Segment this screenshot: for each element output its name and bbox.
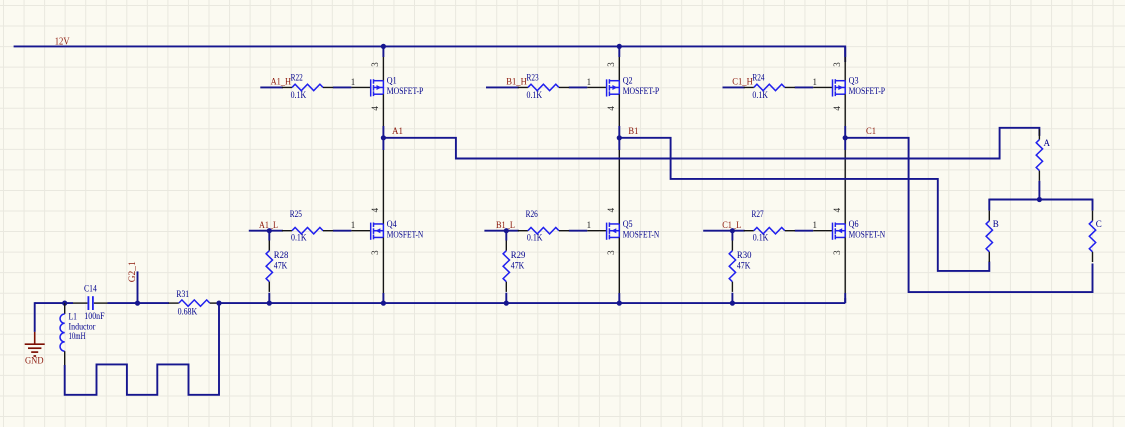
value 100nF of C14	[84, 311, 104, 321]
label B (load)	[993, 219, 999, 229]
junction node B1	[617, 135, 622, 140]
svg-text:4: 4	[832, 207, 842, 212]
wire gate to R28	[268, 231, 270, 303]
svg-text:R25: R25	[290, 209, 303, 219]
svg-text:0.1K: 0.1K	[752, 90, 768, 100]
transistor Q3 MOSFET-P	[833, 79, 846, 96]
svg-text:0.68K: 0.68K	[178, 307, 198, 317]
net label A1_H	[271, 77, 292, 87]
wire net G2_1 stub	[137, 271, 139, 303]
wire square-wave generator	[65, 303, 219, 395]
junction star point	[1037, 197, 1042, 202]
svg-text:10mH: 10mH	[69, 331, 86, 341]
svg-text:R31: R31	[176, 289, 189, 299]
svg-text:A1: A1	[392, 126, 403, 136]
junction bus at Q4	[381, 301, 386, 306]
wire net C1_H to Q3 gate	[723, 86, 814, 88]
value 0.1K of R27	[753, 233, 769, 243]
svg-text:0.1K: 0.1K	[753, 233, 769, 243]
Q6 pin 3 (source to bus)	[832, 237, 845, 303]
transistor Q5 MOSFET-N	[607, 222, 620, 239]
svg-text:47K: 47K	[274, 260, 288, 270]
resistor R22	[282, 84, 333, 90]
svg-text:3: 3	[606, 62, 616, 67]
value 47K of R29	[511, 260, 525, 270]
svg-text:Q2: Q2	[623, 76, 633, 86]
svg-text:1: 1	[351, 77, 356, 87]
wire load A to star point	[1038, 181, 1040, 200]
svg-text:Q3: Q3	[849, 76, 859, 86]
Q1 pin 3 (drain to 12V rail)	[370, 46, 383, 80]
svg-text:R29: R29	[511, 250, 526, 260]
svg-text:R27: R27	[752, 209, 765, 219]
label R26	[526, 209, 539, 219]
resistor R23	[518, 84, 569, 90]
Q6 pin 4 (drain to node)	[832, 138, 845, 224]
Q3 pin 4 (source to node C1)	[832, 94, 845, 138]
Q4 pin 3 (source to bus)	[370, 237, 383, 303]
label R27	[752, 209, 765, 219]
label Q6	[849, 219, 859, 229]
svg-text:Inductor: Inductor	[69, 321, 96, 331]
label R25	[290, 209, 303, 219]
svg-text:4: 4	[370, 106, 380, 111]
wire GND corner to C14	[35, 302, 73, 332]
wire gate to R29	[505, 231, 507, 303]
wire net A1_L to Q4 gate	[249, 230, 352, 232]
transistor Q6 MOSFET-N	[833, 222, 846, 239]
label Q4	[387, 219, 397, 229]
wire node C1 to load C	[845, 138, 1092, 292]
wire net C1_L to Q6 gate	[703, 230, 813, 232]
svg-text:100nF: 100nF	[84, 311, 104, 321]
label Q1	[387, 76, 397, 86]
net label B1_L	[496, 220, 515, 230]
junction C1_L gate / R30	[730, 228, 735, 233]
svg-text:C14: C14	[84, 283, 97, 293]
value 0.68K of R31	[178, 307, 198, 317]
label R28	[274, 250, 289, 260]
svg-text:1: 1	[587, 220, 592, 230]
resistor R25	[282, 228, 333, 234]
svg-text:R26: R26	[526, 209, 539, 219]
resistor load B	[986, 211, 992, 262]
label MOSFET-N of Q5	[623, 229, 660, 239]
svg-text:MOSFET-P: MOSFET-P	[849, 86, 886, 96]
wire net A1_H to Q1 gate	[260, 86, 351, 88]
value 47K of R28	[274, 260, 288, 270]
net label A1	[392, 126, 403, 136]
svg-text:1: 1	[587, 77, 592, 87]
svg-text:MOSFET-P: MOSFET-P	[623, 86, 660, 96]
label R31	[176, 289, 189, 299]
svg-text:Q1: Q1	[387, 76, 397, 86]
label A (load)	[1044, 138, 1051, 148]
value 0.1K of R22	[291, 90, 307, 100]
svg-text:Q6: Q6	[849, 219, 859, 229]
label MOSFET-P of Q1	[387, 86, 424, 96]
svg-text:R28: R28	[274, 250, 289, 260]
label Q5	[623, 219, 633, 229]
svg-text:L1: L1	[69, 312, 78, 322]
junction R31 / generator return	[216, 301, 221, 306]
transistor Q1 MOSFET-P	[371, 79, 384, 96]
resistor load C	[1089, 211, 1095, 262]
value 0.1K of R23	[527, 90, 543, 100]
svg-text:C: C	[1096, 219, 1102, 229]
label R24	[752, 73, 765, 83]
svg-text:47K: 47K	[511, 260, 525, 270]
Q5 pin 4 (drain to node)	[606, 138, 619, 224]
svg-text:Q4: Q4	[387, 219, 397, 229]
transistor Q4 MOSFET-N	[371, 222, 384, 239]
svg-text:R30: R30	[737, 250, 752, 260]
junction node C1	[843, 135, 848, 140]
wire star point B to C	[989, 199, 1092, 211]
junction A1_L gate / R28	[267, 228, 272, 233]
svg-text:R24: R24	[752, 73, 765, 83]
svg-text:B1_H: B1_H	[506, 77, 527, 87]
Q1 pin 1 (gate)	[351, 77, 371, 88]
label R30	[737, 250, 752, 260]
wire gate to R30	[731, 231, 733, 303]
resistor R27	[744, 228, 795, 234]
resistor R28 47K	[266, 241, 272, 292]
svg-text:C1: C1	[866, 126, 876, 136]
Q2 pin 3 (drain to 12V rail)	[606, 46, 619, 80]
svg-text:G2_1: G2_1	[127, 261, 137, 282]
net label C1_L	[722, 220, 741, 230]
net label C1	[866, 126, 876, 136]
label MOSFET-N of Q6	[849, 229, 886, 239]
junction on rail at Q1	[381, 44, 386, 49]
label L1	[69, 312, 78, 322]
resistor load A	[1036, 129, 1042, 180]
label GND	[25, 356, 44, 366]
svg-text:Q5: Q5	[623, 219, 633, 229]
junction node A1	[381, 135, 386, 140]
label MOSFET-P of Q3	[849, 86, 886, 96]
svg-text:0.1K: 0.1K	[291, 90, 307, 100]
label C (load)	[1096, 219, 1102, 229]
svg-text:R22: R22	[291, 73, 303, 83]
svg-text:3: 3	[370, 250, 380, 255]
resistor R26	[518, 228, 569, 234]
wire C14 to R31	[108, 302, 170, 304]
wire net B1_L to Q5 gate	[484, 230, 587, 232]
svg-text:A: A	[1044, 138, 1051, 148]
svg-text:MOSFET-N: MOSFET-N	[387, 229, 424, 239]
junction net G2_1	[135, 301, 140, 306]
svg-text:4: 4	[606, 207, 616, 212]
junction on rail at Q2	[617, 44, 622, 49]
label C14	[84, 283, 97, 293]
label Q2	[623, 76, 633, 86]
svg-text:0.1K: 0.1K	[527, 90, 543, 100]
svg-text:3: 3	[606, 250, 616, 255]
value 0.1K of R25	[291, 233, 307, 243]
junction R30 to source bus	[730, 301, 735, 306]
label MOSFET-P of Q2	[623, 86, 660, 96]
junction L1 tap	[62, 301, 67, 306]
wire node A1 to load A	[383, 128, 1039, 159]
svg-text:3: 3	[832, 62, 842, 67]
svg-text:3: 3	[832, 250, 842, 255]
wire source bus	[219, 298, 845, 303]
wire node B1 to load B	[619, 138, 989, 271]
svg-text:47K: 47K	[737, 260, 751, 270]
svg-text:C1_H: C1_H	[732, 77, 753, 87]
junction B1_L gate / R29	[504, 228, 509, 233]
svg-text:1: 1	[813, 220, 818, 230]
svg-text:12V: 12V	[55, 36, 71, 47]
Q2 pin 4 (source to node B1)	[606, 94, 619, 138]
resistor R31	[169, 300, 220, 306]
svg-text:B1: B1	[628, 126, 638, 136]
net label B1_H	[506, 77, 527, 87]
svg-text:B: B	[993, 219, 999, 229]
transistor Q2 MOSFET-P	[607, 79, 620, 96]
Q3 pin 3 (drain to 12V rail)	[832, 46, 845, 80]
ground symbol GND	[25, 332, 45, 356]
value 47K of R30	[737, 260, 751, 270]
svg-text:1: 1	[813, 77, 818, 87]
resistor R24	[744, 84, 795, 90]
Q5 pin 1 (gate)	[587, 220, 607, 231]
svg-text:GND: GND	[25, 356, 44, 366]
svg-text:3: 3	[370, 62, 380, 67]
Q3 pin 1 (gate)	[813, 77, 833, 88]
svg-text:R23: R23	[527, 73, 540, 83]
resistor R30 47K	[729, 241, 735, 292]
net label G2_1	[127, 261, 137, 282]
value 10mH of L1	[69, 331, 86, 341]
label Inductor of L1	[69, 321, 96, 331]
power port 12V label	[55, 36, 71, 47]
junction R28 to source bus	[267, 301, 272, 306]
svg-text:4: 4	[606, 106, 616, 111]
label R23	[527, 73, 540, 83]
Q1 pin 4 (source to node A1)	[370, 94, 383, 138]
Q2 pin 1 (gate)	[587, 77, 607, 88]
svg-text:MOSFET-N: MOSFET-N	[849, 229, 886, 239]
net label A1_L	[259, 220, 278, 230]
svg-text:4: 4	[832, 106, 842, 111]
capacitor C14	[73, 296, 108, 310]
resistor R29 47K	[503, 241, 509, 292]
value 0.1K of R24	[752, 90, 768, 100]
label Q3	[849, 76, 859, 86]
svg-text:1: 1	[351, 220, 356, 230]
svg-text:MOSFET-P: MOSFET-P	[387, 86, 424, 96]
wire 12V power rail	[14, 46, 846, 63]
wire net B1_H to Q2 gate	[486, 86, 587, 88]
net label C1_H	[732, 77, 753, 87]
svg-text:0.1K: 0.1K	[527, 233, 543, 243]
Q4 pin 1 (gate)	[351, 220, 371, 231]
value 0.1K of R26	[527, 233, 543, 243]
svg-text:MOSFET-N: MOSFET-N	[623, 229, 660, 239]
svg-text:0.1K: 0.1K	[291, 233, 307, 243]
Q6 pin 1 (gate)	[813, 220, 833, 231]
junction R29 to source bus	[504, 301, 509, 306]
Q4 pin 4 (drain to node)	[370, 138, 383, 224]
net label B1	[628, 126, 638, 136]
inductor L1	[60, 303, 65, 365]
svg-text:A1_H: A1_H	[271, 77, 292, 87]
label MOSFET-N of Q4	[387, 229, 424, 239]
junction bus at Q5	[617, 301, 622, 306]
label R29	[511, 250, 526, 260]
svg-text:4: 4	[370, 207, 380, 212]
Q5 pin 3 (source to bus)	[606, 237, 619, 303]
label R22	[291, 73, 303, 83]
